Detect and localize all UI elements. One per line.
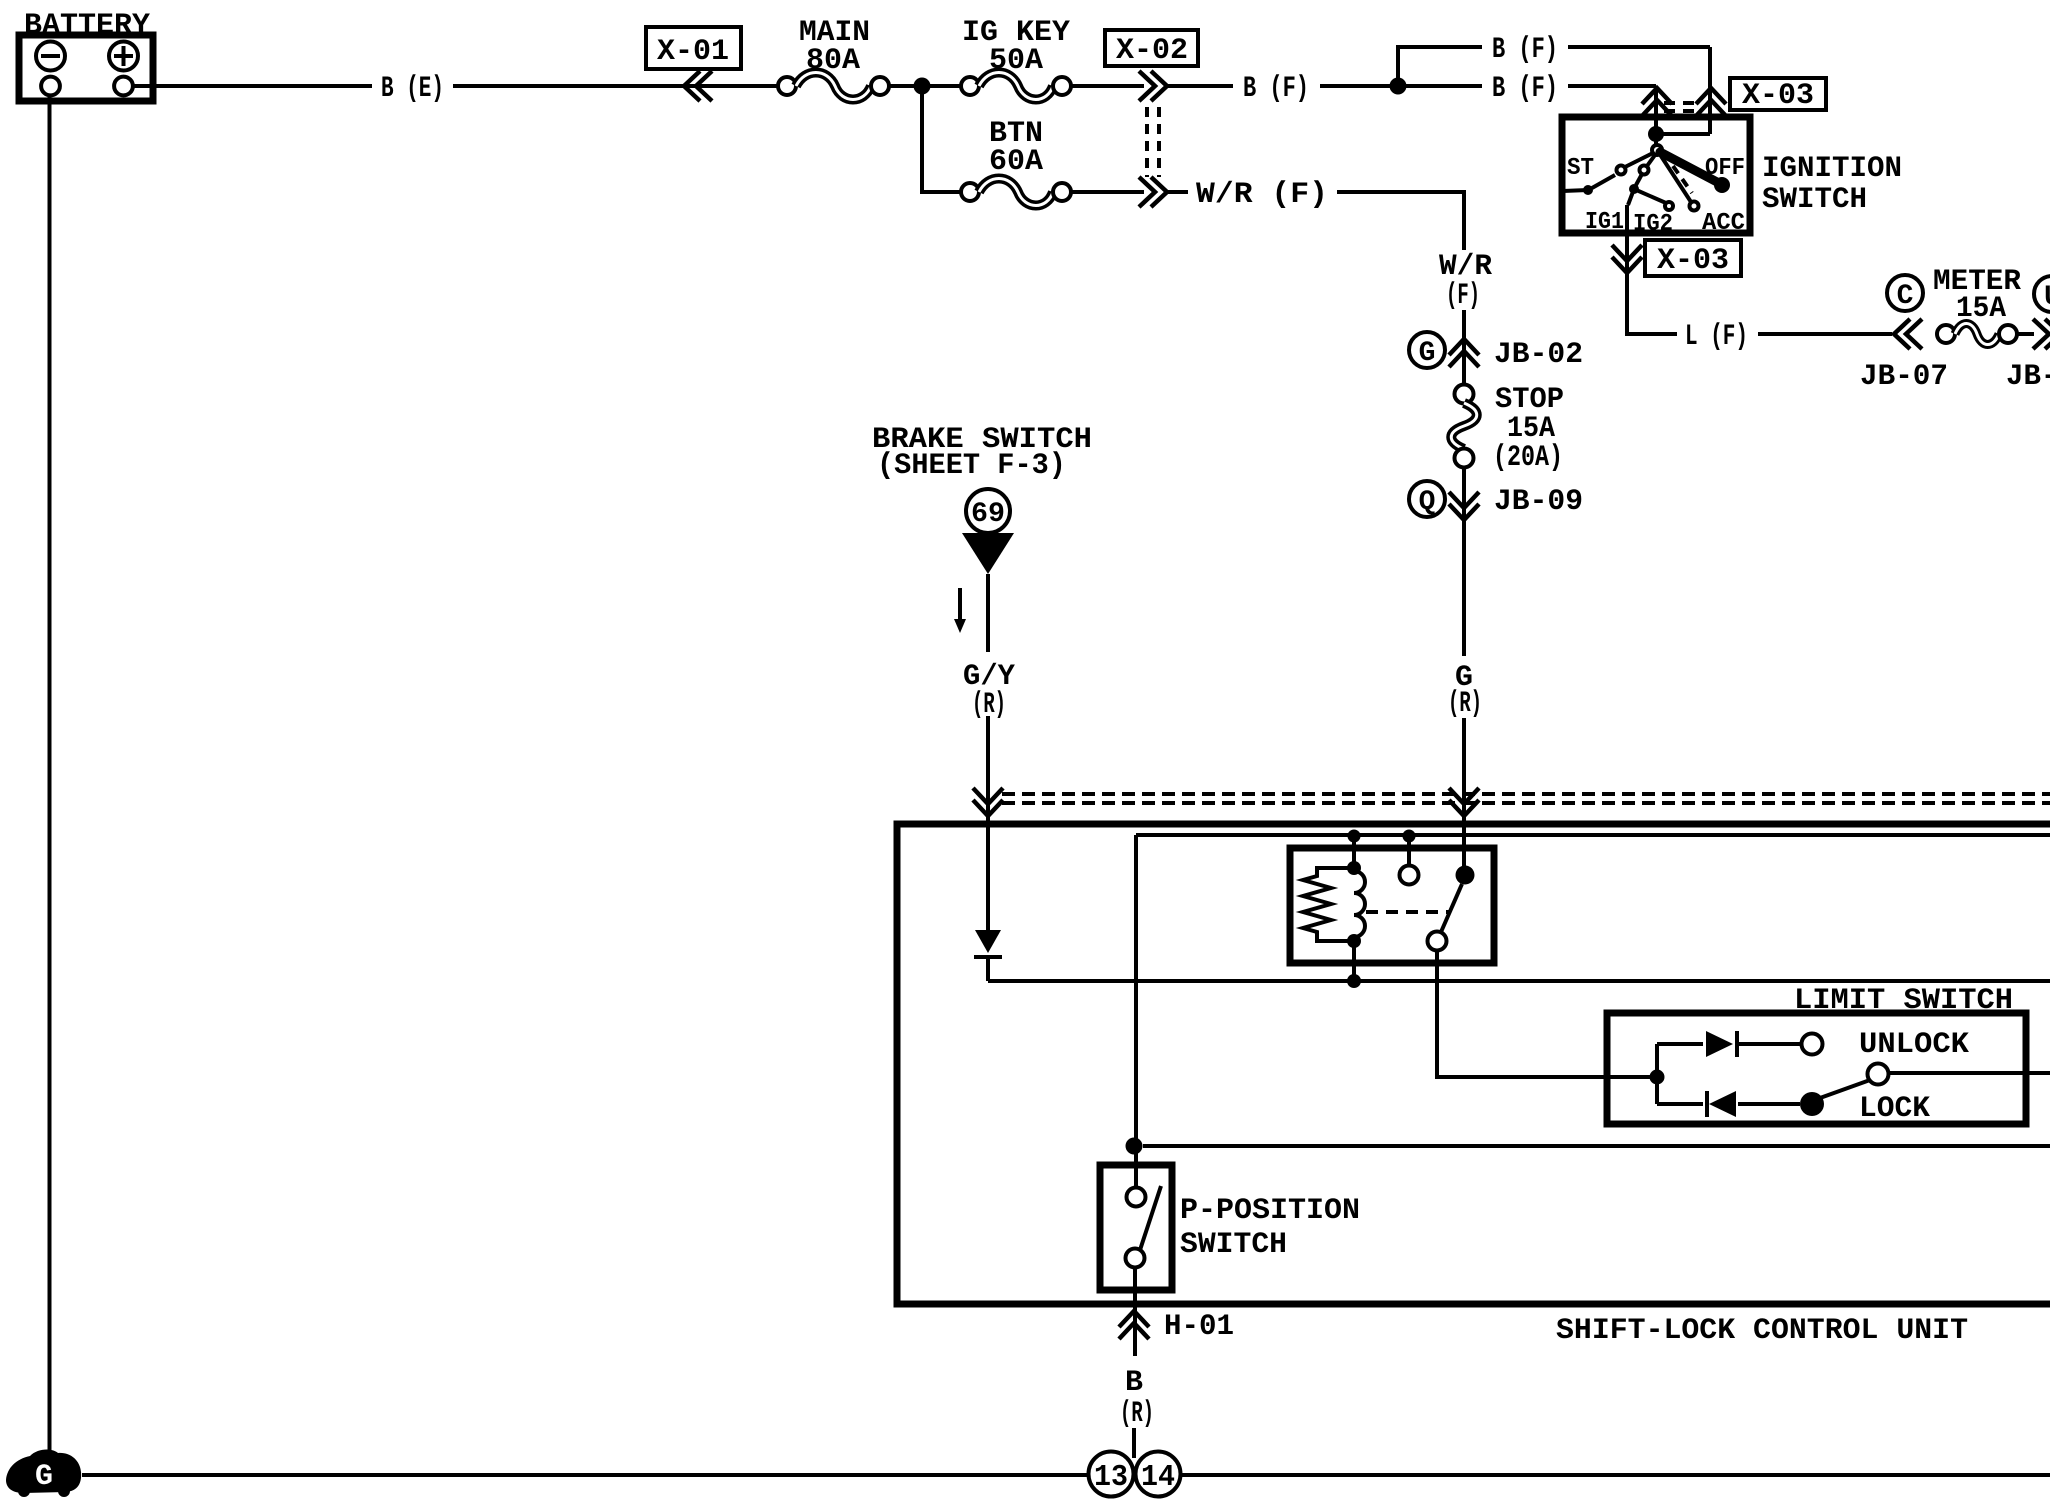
svg-text:SWITCH: SWITCH	[1762, 183, 1867, 217]
wire relay output	[1437, 951, 1657, 1077]
connector X-01	[646, 27, 741, 69]
svg-text:UNLOCK: UNLOCK	[1859, 1028, 1969, 1062]
svg-text:W/R (F): W/R (F)	[1196, 178, 1328, 212]
ground symbol car body	[6, 1450, 81, 1497]
battery positive post	[114, 77, 133, 96]
wire	[1132, 1428, 1136, 1458]
svg-text:P-POSITION: P-POSITION	[1180, 1194, 1360, 1228]
fuse BTN 60A	[961, 117, 1071, 206]
svg-text:(R): (R)	[1448, 687, 1482, 721]
relay pivot contact	[1456, 866, 1475, 885]
svg-text:B (F): B (F)	[1243, 72, 1309, 106]
diode D3 lock	[1707, 1091, 1736, 1117]
svg-text:B (F): B (F)	[1492, 72, 1558, 106]
svg-text:G: G	[1419, 338, 1436, 369]
relay switch arm	[1441, 884, 1462, 932]
svg-text:JB-0: JB-0	[2006, 360, 2050, 394]
label P-POSITION SWITCH	[1180, 1194, 1360, 1262]
relay actuation dashed link	[1366, 910, 1449, 914]
connector chevron into unit left	[973, 788, 1003, 816]
wire	[2017, 332, 2034, 336]
wire	[1133, 1268, 1137, 1356]
label G/Y (R)	[963, 660, 1015, 722]
svg-text:B (F): B (F)	[1492, 33, 1558, 67]
wire	[930, 84, 961, 88]
battery	[19, 9, 153, 101]
limit switch input node	[1650, 1070, 1665, 1085]
svg-text:OFF: OFF	[1705, 155, 1745, 182]
wire	[889, 84, 922, 88]
svg-text:SHIFT-LOCK CONTROL UNIT: SHIFT-LOCK CONTROL UNIT	[1556, 1314, 1968, 1348]
connector circled U	[2034, 276, 2050, 313]
wire limit output	[1889, 1071, 2050, 1075]
connector chevron X-03 right	[1696, 88, 1726, 116]
connector chevron H-01	[1119, 1311, 1149, 1339]
internal bus diode line	[988, 979, 2050, 983]
fuse STOP 15A	[1451, 383, 1564, 475]
wire	[453, 84, 778, 88]
wire	[1071, 84, 1144, 88]
svg-text:G: G	[35, 1460, 53, 1494]
wire G(R) down to control unit	[1462, 718, 1466, 866]
ignition switch box	[1562, 117, 1750, 233]
ignition ST contact	[1563, 153, 1653, 195]
wire branch up	[1398, 47, 1482, 86]
wire	[1166, 84, 1233, 88]
relay coil bottom node	[1347, 934, 1361, 948]
connector chevron X-03 bottom	[1612, 245, 1642, 273]
wire	[1134, 1146, 1138, 1188]
label IGNITION SWITCH	[1762, 152, 1902, 217]
wire	[1657, 1102, 1703, 1106]
relay moving contact	[1428, 932, 1447, 951]
svg-text:(20A): (20A)	[1493, 441, 1563, 475]
label W/R (F) vertical	[1439, 250, 1492, 313]
wire ignition output	[1627, 205, 1677, 334]
diode D2 unlock	[1706, 1031, 1737, 1057]
connector X-03 box	[1730, 78, 1826, 113]
relay resistor	[1303, 868, 1354, 941]
svg-text:LOCK: LOCK	[1859, 1092, 1930, 1126]
wire B(E) battery to X-01	[133, 84, 372, 88]
relay coil feed node	[1348, 830, 1361, 843]
svg-text:ST: ST	[1567, 155, 1594, 182]
svg-text:B: B	[1125, 1366, 1143, 1400]
internal bus upper	[1136, 833, 2050, 837]
svg-text:X-03: X-03	[1742, 79, 1814, 113]
svg-text:Q: Q	[1419, 487, 1436, 518]
relay contact feed node	[1403, 830, 1416, 843]
svg-text:C: C	[1897, 281, 1914, 312]
internal bus lower	[1143, 1144, 2050, 1148]
limit switch box	[1607, 1013, 2026, 1124]
wire	[1662, 132, 1710, 136]
junction node	[914, 78, 931, 95]
svg-text:ACC: ACC	[1702, 210, 1745, 237]
svg-text:(F): (F)	[1446, 279, 1480, 313]
fuse METER	[1937, 324, 2017, 345]
battery positive terminal	[109, 42, 138, 71]
fuse MAIN 80A	[778, 16, 889, 100]
wire coil to bus	[1352, 941, 1356, 981]
p-position switch arm	[1140, 1186, 1161, 1250]
wire	[1406, 84, 1482, 88]
wire	[1462, 310, 1466, 385]
svg-text:JB-09: JB-09	[1494, 485, 1583, 519]
node coil-bus	[1347, 974, 1361, 988]
connector dashed link X-02	[1147, 107, 1159, 177]
wire	[1407, 836, 1411, 866]
svg-text:(SHEET F-3): (SHEET F-3)	[877, 449, 1066, 483]
ignition OFF rotor arm	[1660, 152, 1730, 193]
svg-text:(R): (R)	[1120, 1397, 1154, 1431]
wire	[1337, 192, 1464, 250]
flow arrow	[954, 588, 966, 633]
ground bus	[82, 1473, 2050, 1477]
svg-text:IGNITION: IGNITION	[1762, 152, 1902, 186]
connector X-03 box bottom	[1645, 240, 1741, 278]
connector chevron X-03 left	[1642, 88, 1672, 116]
wire	[1739, 1042, 1801, 1046]
connector chevron JB-07	[1894, 319, 1922, 349]
connector circled 69	[966, 489, 1010, 533]
brake switch arrow triangle	[962, 533, 1014, 574]
svg-text:BATTERY: BATTERY	[24, 9, 150, 43]
connector circled Q	[1409, 481, 1445, 518]
diode D1	[974, 930, 1002, 957]
wire	[1655, 1044, 1659, 1104]
node p-position junction	[1126, 1138, 1143, 1155]
limit unlock contact	[1802, 1034, 1823, 1055]
connector circled 14	[1136, 1452, 1181, 1497]
svg-text:14: 14	[1141, 1460, 1175, 1495]
connector chevron JB right	[2033, 319, 2050, 349]
connector X-02	[1105, 30, 1198, 68]
limit lock contact	[1800, 1092, 1824, 1116]
relay NO contact	[1400, 866, 1419, 885]
label B (R)	[1120, 1366, 1154, 1431]
svg-text:JB-02: JB-02	[1494, 338, 1583, 372]
wire	[1462, 467, 1466, 656]
svg-text:13: 13	[1094, 1460, 1128, 1495]
wire G/Y	[986, 574, 990, 930]
svg-text:JB-07: JB-07	[1860, 360, 1948, 394]
svg-text:H-01: H-01	[1164, 1310, 1234, 1344]
relay box	[1290, 848, 1494, 963]
ignition rotor pivot	[1652, 138, 1662, 155]
label METER 15A	[1933, 265, 2021, 326]
ignition ACC contact	[1659, 153, 1699, 211]
svg-text:B (E): B (E)	[381, 72, 444, 106]
label BRAKE SWITCH (SHEET F-3)	[872, 423, 1092, 483]
ignition feed node	[1648, 126, 1664, 142]
p-position switch box	[1100, 1165, 1172, 1290]
wire	[986, 957, 990, 981]
shift-lock control unit box	[897, 824, 2050, 1304]
wire	[1320, 84, 1398, 88]
connector dashed link into unit	[1002, 794, 2050, 803]
p-position bottom contact	[1126, 1249, 1145, 1268]
connector chevron JB-09	[1449, 492, 1479, 520]
relay coil	[1354, 868, 1365, 941]
connector chevron X-02 lower	[1139, 177, 1167, 207]
svg-text:X-02: X-02	[1116, 34, 1188, 68]
wire BTN branch	[922, 86, 961, 192]
wire	[1166, 190, 1188, 194]
svg-text:X-03: X-03	[1657, 244, 1729, 278]
fuse IG KEY 50A	[961, 16, 1071, 100]
svg-text:IG2: IG2	[1633, 211, 1673, 238]
limit switch arm	[1820, 1080, 1870, 1098]
connector chevron X-01	[684, 71, 712, 101]
connector dashed link X-03	[1664, 103, 1702, 111]
connector circled G	[1409, 332, 1445, 369]
wire	[1071, 190, 1144, 194]
wire	[1568, 86, 1656, 134]
connector chevron JB-02	[1449, 339, 1479, 367]
svg-text:U: U	[2044, 282, 2050, 313]
connector circled C	[1887, 275, 1923, 312]
wire	[1352, 836, 1356, 868]
svg-text:(R): (R)	[972, 688, 1006, 722]
wire	[1738, 1102, 1800, 1106]
svg-text:L (F): L (F)	[1685, 320, 1748, 354]
internal wire left vertical	[1134, 835, 1138, 1146]
label G (R)	[1448, 661, 1482, 721]
ignition IG contact	[1628, 155, 1673, 210]
wire	[1657, 1042, 1703, 1046]
relay coil top node	[1347, 861, 1361, 875]
junction node B(F)	[1390, 78, 1407, 95]
battery negative terminal	[36, 42, 65, 71]
wire	[1568, 47, 1710, 134]
p-position top contact	[1127, 1188, 1146, 1207]
wire	[1758, 332, 1892, 336]
svg-text:69: 69	[971, 499, 1005, 530]
connector circled 13	[1089, 1452, 1134, 1497]
svg-text:SWITCH: SWITCH	[1180, 1228, 1287, 1262]
connector chevron X-02 upper	[1139, 71, 1167, 101]
limit common contact	[1868, 1064, 1889, 1085]
svg-text:IG1: IG1	[1585, 209, 1624, 236]
svg-text:X-01: X-01	[657, 35, 729, 69]
connector chevron into unit right	[1449, 788, 1479, 816]
wire battery ground drop	[48, 96, 52, 1456]
battery negative post	[41, 77, 60, 96]
